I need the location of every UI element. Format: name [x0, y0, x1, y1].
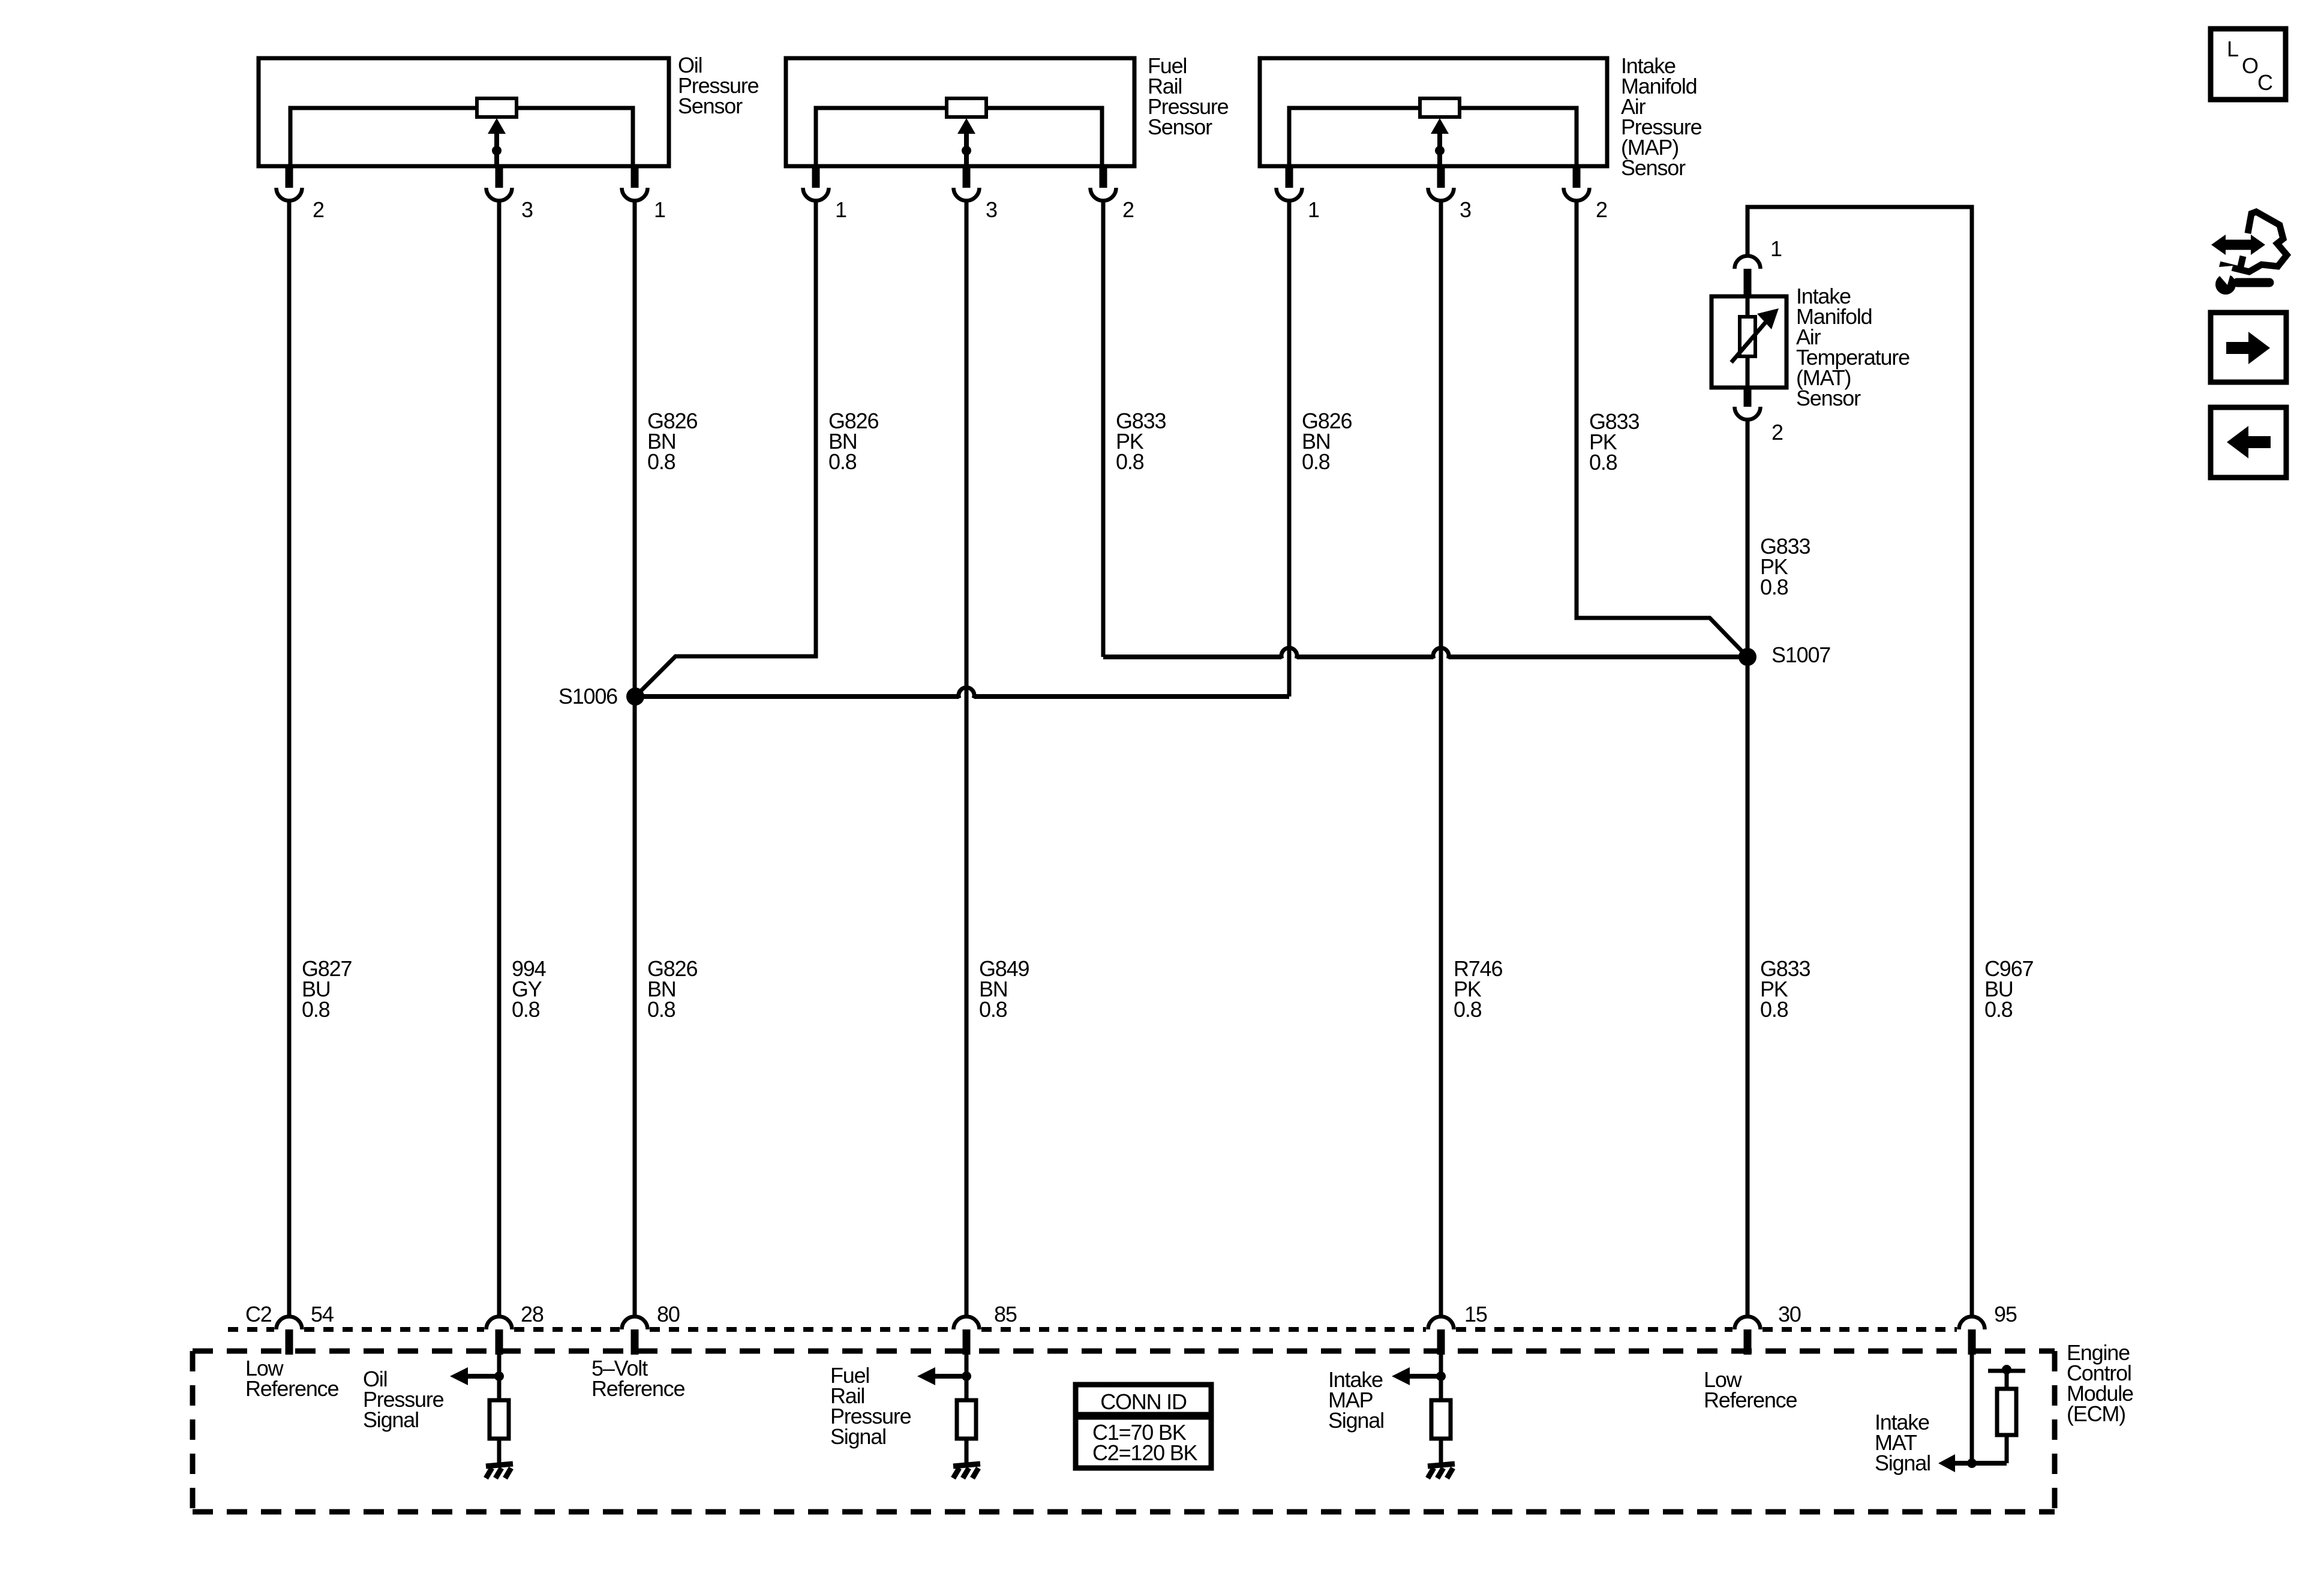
CONN ID table box: [1076, 1385, 1211, 1468]
wire G826 BN: oil sensor pin 1 / 5-volt reference through S1006 to ECM pin 80: [633, 200, 637, 1317]
ECM dashed box outline: [193, 1351, 2055, 1512]
right arrow icon box: [2211, 313, 2286, 382]
wire segment: node to pull-up resistor: [2005, 1435, 2009, 1463]
wire G833 PK: fuel rail sensor pin 2 down to S1007 bus: [1101, 200, 1106, 657]
wiper arrow of potentiometer oil pressure sensor: [488, 118, 506, 166]
svg-text:1: 1: [654, 197, 665, 222]
connector pin 1 oil pressure sensor (male stub into female cup): [622, 165, 648, 201]
svg-text:15: 15: [1464, 1302, 1487, 1326]
junction dot on wiper MAP sensor: [1435, 146, 1445, 155]
wire G827 BU: oil sensor pin 2 to ECM pin 54: [287, 200, 292, 1317]
wire segment: pin fuel rail pressure signal stub to internal node: [965, 1353, 969, 1398]
connector pin 15 ECM (cup arc and stub through C2 row): [1428, 1317, 1454, 1355]
svg-text:CONN ID: CONN ID: [1100, 1389, 1187, 1414]
svg-text:1: 1: [835, 197, 846, 222]
thermistor body (MAT sensor): [1740, 317, 1755, 356]
wire: internal track bus fuel rail pressure sensor: [816, 108, 1102, 166]
wire segment: S1007 low reference bus from fuel pin 2: [1103, 655, 1281, 659]
junction dot (oil pressure signal): [494, 1371, 504, 1381]
svg-text:C2: C2: [245, 1302, 272, 1326]
MAP sensor box: [1260, 58, 1607, 166]
wire R746 PK: MAP sensor pin 3 to ECM pin 15: [1439, 200, 1443, 1317]
wire segment: pin 95 stub down to MAT signal node: [1970, 1353, 1974, 1463]
connector pin 2 fuel rail pressure sensor (male stub into female cup): [1091, 165, 1116, 201]
wire: internal track bus MAP sensor: [1289, 108, 1577, 166]
svg-text:95: 95: [1994, 1302, 2017, 1326]
wire hop over fuel pin 3 wire: [959, 688, 974, 698]
ground symbol (oil pressure signal): [486, 1464, 513, 1478]
svg-text:S1007: S1007: [1771, 643, 1830, 667]
connector pin 1 MAT sensor: [1735, 256, 1761, 298]
signal arrow (fuel rail pressure signal): [917, 1367, 966, 1385]
svg-text:2: 2: [1122, 197, 1134, 222]
ECM C2 connector dashed line: [228, 1327, 1957, 1332]
junction dot (fuel rail pressure signal): [962, 1371, 971, 1381]
wire: MAT sensor internal lead: [1746, 296, 1750, 388]
connector pin 3 MAP sensor (male stub into female cup): [1428, 165, 1454, 201]
svg-text:30: 30: [1778, 1302, 1801, 1326]
wire hop over MAP pin 3 wire: [1433, 648, 1449, 659]
junction dot on wiper oil pressure sensor: [492, 146, 502, 155]
junction dot (intake MAT signal): [1967, 1458, 1977, 1468]
svg-text:C2=120 BK: C2=120 BK: [1092, 1440, 1198, 1465]
svg-text:S1006: S1006: [559, 684, 617, 709]
connector pin 80 ECM (cup arc and stub through C2 row): [622, 1317, 648, 1355]
svg-text:85: 85: [994, 1302, 1017, 1326]
wiper arrow of potentiometer MAP sensor: [1431, 118, 1449, 166]
wire G826 BN: MAP sensor pin 1 down to S1006 bus corner: [1287, 200, 1292, 697]
wire G833 PK: MAT sensor pin 2 through S1007 to ECM pin 30: [1746, 420, 1750, 1317]
pull-up resistor (intake MAT input): [1997, 1389, 2016, 1435]
svg-text:L: L: [2227, 37, 2238, 61]
junction dot (intake MAP signal): [1436, 1371, 1446, 1381]
wire 994 GY: oil sensor pin 3 to ECM pin 28: [497, 200, 502, 1317]
connector pin 3 fuel rail pressure sensor (male stub into female cup): [953, 165, 979, 201]
signal arrow (oil pressure signal): [450, 1367, 499, 1385]
connector pin 3 oil pressure sensor (male stub into female cup): [487, 165, 512, 201]
svg-text:3: 3: [521, 197, 533, 222]
connector pin 95 ECM (cup arc and stub through C2 row): [1959, 1317, 1985, 1355]
wire segment: pin intake MAP signal stub to internal node: [1439, 1353, 1443, 1398]
wire segment: resistor to ground (fuel rail pressure signal): [965, 1439, 969, 1463]
potentiometer track resistor oil pressure sensor: [477, 98, 517, 117]
svg-text:54: 54: [311, 1302, 334, 1326]
harness repair icon (double arrow, connector outline, wrench): [2211, 212, 2287, 295]
wire segment: S1007 bus (right part into splice): [1449, 655, 1747, 659]
svg-text:80: 80: [657, 1302, 680, 1326]
fuel rail pressure sensor box: [786, 58, 1134, 166]
svg-text:1: 1: [1770, 236, 1782, 261]
signal arrow (intake MAT signal): [1938, 1454, 2007, 1472]
wire segment: S1006 bus (right part to MAP pin 1 wire): [974, 694, 1289, 699]
svg-text:28: 28: [521, 1302, 544, 1326]
connector pin 28 ECM (cup arc and stub through C2 row): [487, 1317, 512, 1355]
wire segment: resistor to internal supply bar: [2005, 1371, 2009, 1389]
wire C967 BU: MAT sensor pin 1 over the top and down to ECM pin 95: [1747, 207, 1972, 1317]
svg-text:2: 2: [313, 197, 324, 222]
connector pin 2 oil pressure sensor (male stub into female cup): [277, 165, 302, 201]
connector pin 2 MAT sensor: [1735, 386, 1761, 419]
wire segment: resistor to ground (intake MAP signal): [1439, 1439, 1443, 1463]
splice S1007: [1739, 648, 1756, 666]
svg-text:2: 2: [1771, 420, 1783, 445]
MAT sensor box: [1712, 296, 1786, 388]
wire G833 PK: MAP sensor pin 2 down, right and diagonal into S1007: [1577, 200, 1747, 657]
signal arrow (intake MAP signal): [1392, 1367, 1441, 1385]
left arrow icon box: [2211, 407, 2286, 478]
splice S1006: [626, 688, 644, 706]
wire G849 BN: fuel rail sensor pin 3 to ECM pin 85: [965, 200, 969, 1317]
svg-text:C: C: [2257, 70, 2272, 95]
resistor (oil pressure signal input pull-down): [490, 1400, 509, 1439]
wire segment: pin oil pressure signal stub to internal node: [497, 1353, 502, 1398]
resistor (intake MAP signal input pull-down): [1431, 1400, 1451, 1439]
connector pin 1 fuel rail pressure sensor (male stub into female cup): [803, 165, 829, 201]
thermistor diagonal arrow (MAT sensor): [1731, 308, 1779, 362]
potentiometer track resistor fuel rail pressure sensor: [947, 98, 986, 117]
svg-text:3: 3: [1460, 197, 1471, 222]
connector pin 85 ECM (cup arc and stub through C2 row): [953, 1317, 979, 1355]
internal supply bar: [1988, 1369, 2025, 1373]
svg-text:O: O: [2242, 53, 2258, 78]
supply bar dot: [2002, 1365, 2011, 1374]
CONN ID table divider: [1076, 1412, 1211, 1420]
wire hop over MAP pin 1 wire: [1281, 648, 1297, 659]
connector pin 54 ECM (cup arc and stub through C2 row): [277, 1317, 302, 1355]
svg-text:3: 3: [986, 197, 997, 222]
wire segment: S1007 bus (middle): [1297, 655, 1433, 659]
connector pin 1 MAP sensor (male stub into female cup): [1277, 165, 1302, 201]
svg-text:2: 2: [1596, 197, 1607, 222]
ground symbol (intake MAP signal): [1428, 1464, 1455, 1478]
wire G826 BN: fuel rail sensor pin 1 down and diagonal into S1006: [635, 200, 816, 697]
wire: internal track bus oil pressure sensor: [290, 108, 633, 166]
connector pin 30 ECM (cup arc and stub through C2 row): [1735, 1317, 1761, 1355]
oil pressure sensor box: [259, 58, 669, 166]
ground symbol (fuel rail pressure signal): [953, 1464, 980, 1478]
wiper arrow of potentiometer fuel rail pressure sensor: [957, 118, 975, 166]
svg-text:1: 1: [1308, 197, 1319, 222]
potentiometer track resistor MAP sensor: [1420, 98, 1460, 117]
connector pin 2 MAP sensor (male stub into female cup): [1564, 165, 1590, 201]
LOC icon box: [2211, 29, 2286, 100]
wire segment: S1006 5-volt reference bus (left part): [635, 694, 959, 699]
junction dot on wiper fuel rail pressure sensor: [962, 146, 971, 155]
wire segment: resistor to ground (oil pressure signal): [497, 1439, 502, 1463]
resistor (fuel rail pressure signal input pull-down): [957, 1400, 976, 1439]
